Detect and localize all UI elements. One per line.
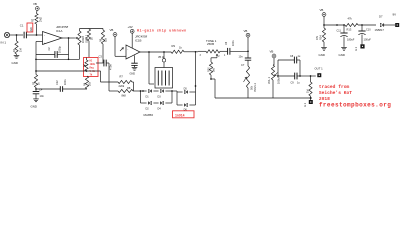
power VB volume xyxy=(270,50,276,66)
resistor R1 1M xyxy=(12,35,23,54)
top rail first stage xyxy=(80,28,104,30)
resistor R13 47k xyxy=(345,17,376,32)
svg-text:1u: 1u xyxy=(297,82,300,85)
svg-text:1000p: 1000p xyxy=(59,45,62,53)
svg-text:+: + xyxy=(44,41,46,45)
pot TONE1 25KB xyxy=(198,39,228,58)
svg-text:220k: 220k xyxy=(119,84,125,88)
diode D5 xyxy=(177,88,196,94)
op-amp IC1B xyxy=(126,35,147,60)
wire presence to bottom rail xyxy=(247,88,249,98)
credit note line3 xyxy=(319,96,330,102)
svg-text:G 1: G 1 xyxy=(355,46,358,51)
svg-text:D7: D7 xyxy=(379,15,383,19)
svg-text:1u: 1u xyxy=(298,55,301,58)
svg-text:C9: C9 xyxy=(291,82,295,85)
ground below C4 xyxy=(31,98,39,109)
capacitor C6 100n xyxy=(225,40,248,55)
resistor R4 20k xyxy=(83,76,91,89)
svg-text:25KB: 25KB xyxy=(207,42,214,46)
gain pot 100kB xyxy=(78,29,88,60)
svg-text:1M: 1M xyxy=(307,90,310,93)
feedback network C2 1000p xyxy=(35,38,79,71)
ground below R14 xyxy=(319,46,327,57)
svg-text:C10: C10 xyxy=(366,29,371,32)
capacitor C3 470n xyxy=(96,55,113,71)
svg-text:47k: 47k xyxy=(316,35,319,40)
svg-text:VB: VB xyxy=(33,2,37,6)
rail to trimmer bottom xyxy=(35,70,100,72)
resistor R10 5k6 xyxy=(207,58,215,80)
wire volume wiper out xyxy=(277,75,295,77)
svg-text:180uF: 180uF xyxy=(347,38,355,42)
wire R10 to bottom rail xyxy=(211,79,312,98)
svg-text:C11: C11 xyxy=(337,30,342,33)
wire C3 down to clipping rail xyxy=(108,63,110,91)
svg-text:G 1: G 1 xyxy=(304,102,307,107)
svg-text:traced from: traced from xyxy=(319,84,350,90)
svg-text:+: + xyxy=(127,56,129,60)
svg-text:10n: 10n xyxy=(40,94,45,98)
svg-text:2: 2 xyxy=(218,56,220,58)
svg-text:D5: D5 xyxy=(184,88,188,91)
svg-text:C6: C6 xyxy=(225,41,228,45)
wire output down left of switch xyxy=(149,52,154,84)
resistor R8 8k8 xyxy=(109,86,141,98)
ground pad G1 supply xyxy=(355,44,365,51)
ground below R1 xyxy=(12,54,20,65)
pot VOL1 100kA xyxy=(268,65,281,98)
svg-text:Hi-gain chip unknown: Hi-gain chip unknown xyxy=(137,29,187,33)
svg-text:1n914: 1n914 xyxy=(175,113,185,117)
svg-text:D3: D3 xyxy=(158,96,162,99)
diode D1 xyxy=(146,90,152,99)
input trim arrow xyxy=(120,48,124,52)
op-amp IC1A xyxy=(43,25,69,45)
svg-text:D4: D4 xyxy=(158,108,162,111)
lower branch xyxy=(141,91,147,103)
ground stub below IC1B xyxy=(130,55,138,75)
resistor R11 to ground xyxy=(307,76,312,99)
resistor R9 1k xyxy=(171,44,198,54)
capacitor C11 180u xyxy=(337,25,355,46)
svg-text:GND: GND xyxy=(130,73,136,76)
svg-text:IC1A: IC1A xyxy=(56,29,62,33)
wire VB to IC1B noninverting input xyxy=(115,55,126,57)
red box 1n914 xyxy=(173,111,195,118)
svg-text:GND: GND xyxy=(339,53,345,57)
diode D6 loop xyxy=(177,92,196,112)
svg-text:C2: C2 xyxy=(48,47,51,51)
svg-text:1M: 1M xyxy=(19,48,23,52)
wire input to C1 xyxy=(10,34,23,36)
svg-text:1k: 1k xyxy=(38,82,41,85)
svg-text:82k: 82k xyxy=(105,37,108,42)
svg-text:VOL 1: VOL 1 xyxy=(268,76,271,84)
wire IC1A output to gain pot wiper xyxy=(62,37,78,39)
svg-text:R8: R8 xyxy=(127,86,131,90)
svg-text:C7: C7 xyxy=(241,63,245,67)
label MA856 xyxy=(144,113,154,117)
svg-text:C4: C4 xyxy=(39,88,43,92)
svg-text:C1: C1 xyxy=(20,24,24,28)
wire to Ge diode pair xyxy=(172,91,177,92)
resistor R14 47k xyxy=(316,25,326,46)
resistor R6 xyxy=(99,29,107,64)
svg-text:1k: 1k xyxy=(91,37,94,40)
svg-text:100kA: 100kA xyxy=(277,77,280,84)
red note hi-gain chip xyxy=(137,29,187,33)
svg-text:OUT 1: OUT 1 xyxy=(315,67,324,71)
svg-text:VB: VB xyxy=(244,29,248,33)
svg-text:20k: 20k xyxy=(89,81,92,86)
svg-text:R13: R13 xyxy=(347,28,352,32)
input jack IN1 xyxy=(1,32,10,44)
svg-text:1: 1 xyxy=(224,55,226,57)
clipping rail left xyxy=(141,90,147,92)
svg-text:freestompboxes.org: freestompboxes.org xyxy=(319,102,391,109)
power VB above R2 xyxy=(33,2,39,14)
svg-text:C8: C8 xyxy=(290,55,294,58)
diode D7 1N5817 xyxy=(375,15,396,33)
diode D3 xyxy=(153,90,172,99)
svg-text:R7: R7 xyxy=(120,75,124,79)
svg-text:VB: VB xyxy=(270,50,274,54)
pot PRESENCE 50k xyxy=(244,66,257,92)
red box around C1 value xyxy=(27,23,33,32)
power VB tone xyxy=(244,29,250,52)
svg-text:3: 3 xyxy=(200,55,202,57)
output pad OUT1 xyxy=(315,67,324,78)
wire IC1B output xyxy=(140,51,171,53)
supply rail xyxy=(324,24,345,26)
svg-text:GND: GND xyxy=(31,105,37,109)
ground below C11 xyxy=(339,46,347,57)
power +9V IC1B xyxy=(128,25,135,48)
svg-text:IN 1: IN 1 xyxy=(1,41,7,45)
svg-text:Tk: Tk xyxy=(90,73,93,76)
output node xyxy=(310,75,316,77)
svg-text:C12: C12 xyxy=(56,80,59,85)
resistor R5 xyxy=(85,29,93,58)
svg-text:C3: C3 xyxy=(99,55,103,59)
svg-text:IC1B: IC1B xyxy=(135,38,141,42)
pad 9V xyxy=(393,13,400,28)
svg-text:D2: D2 xyxy=(146,108,150,111)
wire diodes up to tone node xyxy=(195,52,197,92)
ground pad G1 output xyxy=(304,98,313,107)
diode D2 xyxy=(146,102,152,111)
node circle above switch xyxy=(158,52,166,68)
series capacitor C12 xyxy=(36,79,87,92)
svg-text:9V: 9V xyxy=(393,13,397,17)
svg-text:22n: 22n xyxy=(29,27,33,32)
bypass loop capacitor C8 xyxy=(278,55,301,77)
capacitor C10 100u xyxy=(358,25,371,44)
svg-text:+9V: +9V xyxy=(128,25,133,29)
resistor R2 bias xyxy=(32,14,43,36)
svg-text:47k: 47k xyxy=(348,17,353,21)
svg-text:1N5817: 1N5817 xyxy=(375,28,385,32)
svg-text:2M2: 2M2 xyxy=(40,17,43,22)
svg-text:MA856: MA856 xyxy=(144,113,154,117)
credit note line1 xyxy=(319,84,350,90)
svg-text:R9: R9 xyxy=(172,44,176,48)
capacitor C1 xyxy=(20,24,43,39)
tone wiper to R10 xyxy=(211,54,218,58)
switch header S1 xyxy=(155,68,173,89)
svg-text:R10: R10 xyxy=(207,67,210,72)
resistor R7 220k xyxy=(101,75,134,89)
svg-text:Seiche's KoT: Seiche's KoT xyxy=(319,90,352,96)
diode D4 xyxy=(153,90,172,110)
svg-text:100n: 100n xyxy=(64,79,67,85)
capacitor C9 series xyxy=(291,73,311,85)
capacitor C4 10n xyxy=(33,88,45,99)
power VB supply xyxy=(320,8,326,26)
svg-text:-: - xyxy=(127,48,128,52)
svg-text:100uF: 100uF xyxy=(364,38,372,42)
red annotation box gain trim xyxy=(84,58,99,77)
credit note line4 xyxy=(319,102,391,109)
svg-text:R14: R14 xyxy=(320,35,323,40)
svg-text:R4: R4 xyxy=(83,82,86,86)
trimmer TR1 xyxy=(84,58,89,72)
svg-text:GND: GND xyxy=(12,61,18,65)
svg-text:-: - xyxy=(44,34,45,38)
svg-text:R1: R1 xyxy=(12,48,16,52)
svg-text:5k6: 5k6 xyxy=(213,67,216,72)
wire rail down to R7 xyxy=(100,71,102,82)
svg-text:VB: VB xyxy=(320,8,324,12)
svg-text:GND: GND xyxy=(319,53,325,57)
wire R7 to clipping rail xyxy=(133,82,135,91)
svg-text:10n: 10n xyxy=(239,56,244,59)
credit note line2 xyxy=(319,90,352,96)
svg-text:8k8: 8k8 xyxy=(122,94,127,98)
svg-text:PRES.1: PRES.1 xyxy=(254,82,257,92)
svg-text:R2: R2 xyxy=(32,18,35,22)
power VB mid xyxy=(110,28,117,56)
svg-text:1k: 1k xyxy=(179,45,182,49)
capacitor C7 10n xyxy=(239,51,252,67)
svg-text:VB: VB xyxy=(110,28,114,32)
resistor R3 xyxy=(32,71,40,88)
svg-text:100n: 100n xyxy=(232,40,235,46)
svg-text:D1: D1 xyxy=(146,96,150,99)
